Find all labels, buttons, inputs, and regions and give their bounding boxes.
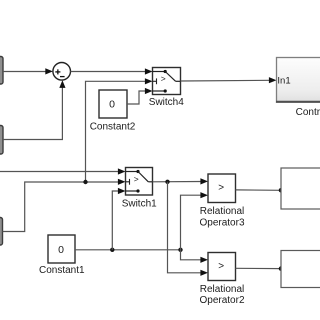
svg-text:Relational: Relational: [200, 284, 244, 295]
wire IN2 to Sum minus input: [3, 80, 66, 139]
switch U1 Switch4: [153, 68, 181, 95]
scope box A (clipped at right edge): [281, 168, 320, 209]
wire left edge to Switch1 input 1: [0, 168, 126, 174]
input block IN2 (gray, clipped at left edge): [0, 126, 3, 155]
wire Constant1 output run: [75, 249, 181, 251]
svg-text:>: >: [161, 74, 166, 84]
node D (Constant1 line to vertical x180.5): [178, 248, 182, 252]
svg-text:In1: In1: [277, 76, 290, 87]
svg-text:Constant1: Constant1: [39, 265, 85, 276]
svg-text:Relational: Relational: [200, 206, 244, 217]
svg-text:Operator3: Operator3: [199, 217, 244, 228]
subsystem U2 Controller (clipped at right edge): [276, 58, 320, 103]
node E (on box A edge): [279, 188, 284, 193]
label Relational Operator2: [199, 284, 244, 306]
input block IN3 (gray, clipped at left edge): [0, 218, 3, 246]
svg-text:>: >: [218, 261, 224, 272]
constant C2 block Constant2: [99, 90, 127, 118]
sum block (circle, + -): [53, 63, 71, 81]
constant C1 block Constant1: [48, 235, 75, 263]
label Relational Operator3: [199, 206, 244, 228]
svg-text:0: 0: [58, 244, 64, 256]
wire IN1 to Sum: [3, 68, 53, 74]
scope box B (clipped at right edge): [281, 251, 320, 288]
wire IN3 to Switch1 input 2: [3, 179, 126, 232]
svg-text:Control: Control: [296, 107, 320, 118]
node A (branch to Switch4 input 2): [83, 180, 87, 184]
wire branch down to Relational Operator2 input 2: [168, 182, 209, 276]
wire Sum to Switch4 input 1: [71, 68, 153, 74]
svg-text:Switch1: Switch1: [122, 198, 157, 209]
node C (Switch1 output branch): [165, 180, 169, 184]
relational operator U5 Relational Operator2: [208, 253, 236, 281]
wire RelOp2 to scope box B: [236, 267, 282, 269]
wire Switch1 output to Relational Operator3 input 1: [153, 178, 209, 184]
wire RelOp3 to scope box A: [236, 189, 282, 191]
svg-text:>: >: [134, 174, 139, 184]
wire Constant2 to Switch4 input 3: [127, 88, 153, 104]
node F (on box B edge): [279, 266, 284, 271]
node B (branch up to Switch1 input 3): [110, 248, 114, 252]
wire node branch to Switch4 input 2 (from y182 line): [86, 78, 153, 182]
svg-text:Operator2: Operator2: [199, 295, 244, 306]
switch U3 Switch1: [126, 168, 153, 196]
svg-text:>: >: [218, 183, 224, 194]
wire vertical x180.5: to RelOp3 input 2 and RelOp2 input 1: [181, 192, 209, 263]
relational operator U4 Relational Operator3: [208, 174, 236, 203]
svg-text:0: 0: [109, 98, 115, 110]
svg-text:Switch4: Switch4: [149, 97, 184, 108]
wire Switch4 to Controller In1: [181, 77, 277, 83]
input block IN1 (gray, clipped at left edge): [0, 57, 3, 85]
wire branch up to Switch1 input 3: [112, 188, 125, 250]
svg-text:Constant2: Constant2: [90, 122, 136, 133]
